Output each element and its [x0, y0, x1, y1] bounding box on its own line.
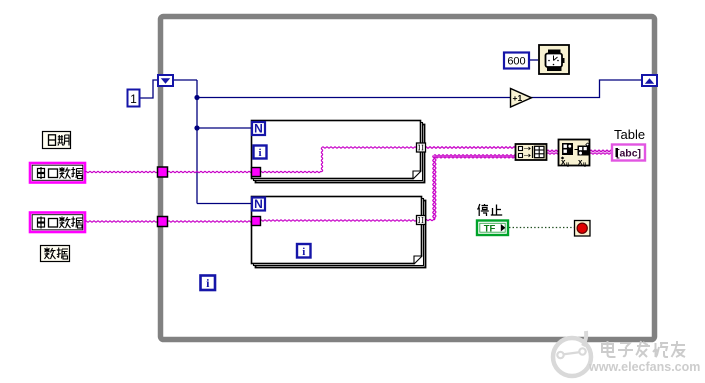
boolean TF terminal	[477, 221, 508, 236]
wire: upper serial string into loop tunnel	[85, 171, 157, 172]
while loop border	[161, 17, 655, 340]
wire: trunk to increment function	[197, 97, 510, 99]
free label 停止	[478, 204, 503, 216]
watermark text 电子发烧友	[602, 341, 685, 357]
tunnel upper string on while border	[158, 167, 168, 177]
N count terminal (upper for loop)	[252, 122, 265, 136]
svg-text:1: 1	[130, 92, 137, 106]
wire: trunk to lower N terminal	[197, 203, 251, 205]
indexing output tunnel on lower for loop	[417, 216, 426, 225]
svg-text:Table: Table	[614, 127, 645, 142]
build array function	[516, 144, 547, 160]
wire: trunk to upper N terminal	[197, 127, 251, 129]
upper for loop frame	[252, 121, 425, 183]
watermark logo	[553, 331, 591, 376]
wire: inside lower for loop	[260, 220, 418, 221]
Table string-array indicator terminal [abc]	[612, 145, 645, 161]
wire: constant 1 to left shift register	[140, 80, 158, 98]
right shift register	[642, 75, 657, 86]
wire: stop TF terminal to stop button (boolean dotted)	[509, 227, 574, 229]
svg-text:i: i	[258, 147, 261, 159]
svg-text:ij: ij	[566, 162, 570, 168]
wire: lower tunnel to lower for loop	[168, 221, 252, 222]
svg-text:N: N	[254, 197, 263, 211]
i iteration terminal of while loop	[201, 276, 216, 291]
lower for loop frame	[252, 197, 426, 268]
i iteration terminal (lower for loop)	[297, 244, 311, 258]
tunnel lower string on while border	[158, 217, 168, 227]
svg-text:i: i	[302, 246, 305, 258]
wire: upper tunnel to upper for loop	[168, 171, 252, 172]
wire junction dot upper	[194, 95, 199, 100]
increment +1 function	[511, 89, 532, 108]
svg-text:N: N	[254, 122, 263, 136]
wire: build array to transpose (2D array)	[547, 150, 559, 154]
svg-text:+1: +1	[513, 93, 523, 103]
wire: lower serial string into loop tunnel	[85, 221, 157, 222]
wire: transpose to Table indicator (2D array)	[590, 150, 612, 154]
indexing output tunnel on upper for loop	[417, 143, 426, 152]
free label 数据	[41, 246, 70, 262]
wire: upper for loop output array to build array	[425, 147, 515, 148]
svg-text:TF: TF	[484, 223, 496, 234]
i iteration terminal (upper for loop)	[254, 146, 267, 160]
wire segment inside upper for loop (redraw)	[260, 147, 418, 173]
input tunnel on lower for loop (magenta)	[252, 217, 261, 226]
N count terminal (lower for loop)	[252, 197, 265, 211]
stop button terminal	[575, 221, 591, 237]
string control terminal 串口数据 (lower)	[30, 213, 85, 233]
wire: inside upper for loop	[260, 171, 322, 172]
wait (ms) function U-wait	[539, 45, 569, 74]
svg-text:www.elecfans.com: www.elecfans.com	[588, 360, 700, 374]
numeric constant 600	[504, 53, 529, 69]
svg-text:[abc]: [abc]	[616, 148, 641, 160]
left shift register	[158, 75, 173, 86]
wire junction dot lower	[194, 125, 199, 130]
transpose 2D array function	[559, 140, 590, 169]
svg-text:ij: ij	[583, 162, 587, 168]
wire segment inside lower for loop (redraw)	[260, 220, 418, 221]
free label 日期	[43, 132, 71, 149]
wire: lower for loop output array up to build array	[425, 155, 516, 221]
wire: left shift register to vertical trunk	[174, 79, 197, 81]
svg-text:600: 600	[507, 56, 525, 68]
wire: vertical trunk	[196, 80, 198, 204]
wire: increment output to right shift register	[531, 80, 642, 98]
wire: 600 constant to wait function	[529, 59, 538, 61]
string control terminal 串口数据 (upper)	[30, 163, 85, 183]
numeric constant 1	[128, 90, 140, 107]
input tunnel on upper for loop (magenta)	[252, 168, 261, 177]
